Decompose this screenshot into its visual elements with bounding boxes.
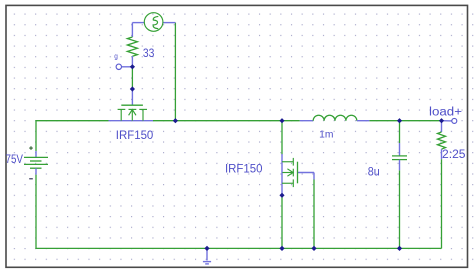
svg-text:g: g: [114, 54, 118, 61]
wire: M2 drain from mid rail: [281, 121, 283, 155]
capacitor C1 8u: [392, 143, 407, 170]
svg-text:IRF150: IRF150: [225, 163, 263, 175]
port g: [116, 64, 132, 69]
junction g node: [130, 64, 135, 69]
junction M2 source: [279, 193, 284, 198]
junction bottom rail M2 source: [279, 246, 284, 251]
wire: source loop right vertical: [174, 23, 176, 121]
junction bottom rail ground: [204, 246, 209, 251]
svg-text:1m: 1m: [319, 129, 333, 140]
svg-text:load+: load+: [429, 106, 462, 118]
ground: [203, 248, 211, 264]
inductor L1: [300, 115, 370, 120]
wire: g node to M1 gate: [131, 67, 133, 89]
battery V1 75V: [24, 146, 48, 179]
junction mid rail load: [439, 118, 444, 123]
resistor R2 2:25: [438, 121, 446, 160]
wire: battery bottom down and bottom rail: [36, 175, 442, 249]
junction mid rail M2 drain: [279, 118, 284, 123]
wire: battery top to mid rail corner to M1 drain: [36, 121, 109, 151]
svg-text:33: 33: [143, 46, 155, 60]
port load+: [442, 118, 457, 123]
junction gate M1: [130, 86, 135, 91]
wire: mid rail M1 to inductor: [153, 120, 300, 122]
svg-text:8u: 8u: [368, 164, 380, 178]
wire: M2 gate down to bottom rail: [313, 180, 315, 249]
wire: capacitor branch bottom: [399, 170, 401, 248]
wire: capacitor branch top: [399, 121, 401, 143]
wire: M2 source to bottom rail: [281, 195, 283, 248]
wire: mid rail inductor to load: [369, 120, 441, 122]
junction mid rail source loop: [173, 118, 178, 123]
resistor R1 33: [127, 23, 137, 67]
svg-text:2:25: 2:25: [442, 149, 466, 161]
junction mid rail capacitor: [397, 118, 402, 123]
junction bottom rail capacitor: [397, 246, 402, 251]
svg-text:75V: 75V: [6, 154, 24, 166]
mosfet M2 IRF150: [282, 154, 314, 195]
mosfet M1 IRF150: [109, 89, 154, 121]
voltage source V2 pulse: [132, 13, 175, 32]
svg-text:IRF150: IRF150: [116, 130, 154, 142]
junction bottom rail gate2: [311, 246, 316, 251]
wire: right riser from bottom rail to R2: [441, 159, 443, 248]
